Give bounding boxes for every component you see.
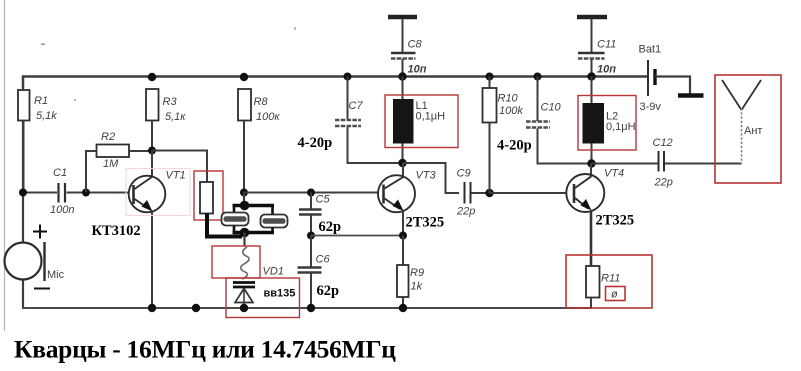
svg-text:C8: C8 <box>408 39 423 51</box>
speck marks <box>41 44 45 46</box>
svg-text:R1: R1 <box>34 95 48 107</box>
wire crystal column down to top bus <box>243 193 245 206</box>
wire junction to boxed resistor <box>152 151 207 183</box>
node rail R8 <box>240 73 248 81</box>
svg-text:5,1к: 5,1к <box>165 111 186 123</box>
wire signal row to VT3 base <box>244 192 379 194</box>
node L2 bottom / osc2 <box>587 159 595 167</box>
svg-text:Bat1: Bat1 <box>639 44 662 56</box>
svg-text:1k: 1k <box>411 281 423 293</box>
svg-text:22p: 22p <box>654 177 673 189</box>
resistor R9 <box>397 236 424 309</box>
transistor VT4 <box>566 164 634 267</box>
capacitor C1 <box>23 167 129 216</box>
wire bottom rail <box>22 307 592 309</box>
node bottom bus <box>240 228 250 238</box>
svg-text:1M: 1M <box>103 158 119 170</box>
svg-text:R2: R2 <box>101 131 115 143</box>
node L1 bottom / osc <box>398 159 406 167</box>
crystal bottom bus <box>233 231 275 234</box>
svg-text:C9: C9 <box>457 168 471 180</box>
resistor R11 <box>566 255 652 308</box>
crystal ZQ2 <box>261 206 288 233</box>
svg-text:R9: R9 <box>410 267 424 279</box>
node VT1 emitter / bottom rail <box>148 304 156 312</box>
node C8 / rail <box>398 72 406 80</box>
microphone Mic <box>5 225 65 289</box>
svg-text:C6: C6 <box>316 254 331 266</box>
svg-text:Mic: Mic <box>47 269 65 281</box>
capacitor C10 <box>497 73 591 164</box>
svg-text:C10: C10 <box>541 102 562 114</box>
svg-text:VD1: VD1 <box>263 266 284 278</box>
svg-text:Ант: Ант <box>744 125 762 137</box>
node C9 / R10 <box>485 189 493 197</box>
page left edge artifact <box>4 0 6 331</box>
node crystal column / signal row <box>240 189 248 197</box>
svg-text:C7: C7 <box>349 100 364 112</box>
node stray on bottom rail <box>192 304 200 312</box>
svg-text:0,1μН: 0,1μН <box>606 121 636 133</box>
capacitor C11 <box>577 17 616 77</box>
svg-text:R11: R11 <box>601 273 620 285</box>
capacitor C8 <box>388 17 427 77</box>
wire bus down to VD1 <box>243 233 245 247</box>
resistor R2 <box>86 131 152 192</box>
crystal top bus <box>233 204 275 207</box>
svg-text:VT4: VT4 <box>604 168 624 180</box>
svg-text:C5: C5 <box>316 194 331 206</box>
svg-text:R3: R3 <box>163 96 178 108</box>
svg-text:Кварцы - 16МГц или 14.7456МГц: Кварцы - 16МГц или 14.7456МГц <box>14 335 396 364</box>
wire C9 node to VT4 base <box>490 192 567 194</box>
svg-text:VT1: VT1 <box>166 170 186 182</box>
svg-text:10п: 10п <box>408 64 427 76</box>
svg-text:2T325: 2T325 <box>406 215 445 231</box>
varicap VD1 <box>226 278 300 318</box>
node C11 / rail <box>587 72 595 80</box>
resistor R8 <box>238 89 280 193</box>
capacitor C7 <box>298 73 403 164</box>
faint box around VT1 <box>126 169 190 216</box>
node rail R3 <box>148 73 156 81</box>
wire top rail <box>23 77 648 89</box>
capacitor C9 <box>456 168 490 218</box>
node top bus <box>240 201 250 211</box>
transistor VT3 <box>378 163 444 236</box>
svg-text:C1: C1 <box>53 167 67 179</box>
svg-text:0,1μН: 0,1μН <box>416 111 446 123</box>
inductor L1 <box>385 77 458 164</box>
node VT3 emitter / R9 <box>399 232 407 240</box>
node C6 / bottom rail <box>307 304 315 312</box>
svg-text:100k: 100k <box>499 105 523 117</box>
svg-text:4-20p: 4-20p <box>497 138 532 154</box>
node C5/C6 midpoint <box>307 232 315 240</box>
capacitor C6 <box>298 236 340 309</box>
svg-text:100n: 100n <box>50 204 74 216</box>
node R9 / bottom rail <box>399 304 407 312</box>
boxed resistor (red) <box>194 171 223 220</box>
inductor L2 <box>578 77 636 164</box>
svg-text:4-20p: 4-20p <box>298 135 333 151</box>
erased component squiggle (red box upper) <box>212 246 284 279</box>
svg-text:КТ3102: КТ3102 <box>92 223 141 239</box>
capacitor C12 <box>653 137 742 189</box>
svg-text:R10: R10 <box>498 93 519 105</box>
capacitor C5 <box>299 189 341 236</box>
node R2 drop / C1 wire <box>82 189 90 197</box>
svg-text:C11: C11 <box>597 39 616 51</box>
svg-text:3-9v: 3-9v <box>640 101 662 113</box>
node R3/R2/collector junction <box>148 147 156 155</box>
svg-text:R8: R8 <box>254 96 269 108</box>
svg-text:10п: 10п <box>597 64 616 76</box>
ground bar <box>678 93 704 97</box>
thick wire resistor to crystal bus <box>207 214 242 237</box>
svg-text:2T325: 2T325 <box>596 213 635 229</box>
node VD1 / bottom rail <box>240 304 248 312</box>
antenna Ант <box>715 75 781 183</box>
svg-text:100к: 100к <box>256 111 280 123</box>
resistor R10 <box>483 73 524 194</box>
svg-text:22p: 22p <box>456 206 475 218</box>
svg-text:C12: C12 <box>653 137 673 149</box>
wire osc2 node to C12 <box>592 163 659 165</box>
battery Bat1 <box>639 44 691 114</box>
resistor R3 <box>146 89 186 151</box>
svg-text:5,1k: 5,1k <box>36 110 57 122</box>
crystal ZQ1 <box>222 206 249 233</box>
svg-text:ø: ø <box>611 289 618 301</box>
svg-text:62p: 62p <box>317 283 340 299</box>
svg-text:вв135: вв135 <box>264 288 296 300</box>
resistor R1 <box>18 90 57 192</box>
node C1/left rail <box>19 189 27 197</box>
wire osc node to C9 <box>403 163 460 193</box>
svg-text:62p: 62p <box>319 219 342 235</box>
svg-text:VT3: VT3 <box>416 170 437 182</box>
wire left vertical (rail to bottom rail) <box>22 77 24 309</box>
transistor VT1 <box>92 151 186 309</box>
wire midpoint to VT3 emitter <box>311 235 403 237</box>
